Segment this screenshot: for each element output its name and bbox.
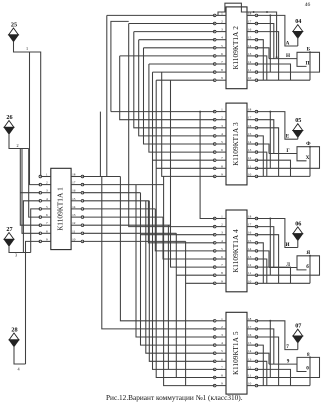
svg-text:13: 13 bbox=[248, 255, 252, 259]
svg-text:1: 1 bbox=[26, 46, 28, 51]
svg-text:3: 3 bbox=[221, 333, 223, 337]
svg-text:2: 2 bbox=[221, 20, 223, 24]
svg-text:Е: Е bbox=[286, 134, 290, 140]
svg-text:27: 27 bbox=[6, 226, 12, 233]
svg-text:16: 16 bbox=[72, 189, 76, 193]
svg-text:2: 2 bbox=[46, 181, 48, 185]
svg-text:12: 12 bbox=[248, 156, 252, 160]
svg-text:Я: Я bbox=[306, 250, 310, 256]
svg-text:11: 11 bbox=[248, 271, 252, 275]
svg-text:5: 5 bbox=[221, 349, 223, 353]
svg-text:1: 1 bbox=[221, 215, 223, 219]
svg-text:9: 9 bbox=[221, 382, 223, 386]
svg-text:6: 6 bbox=[221, 52, 223, 56]
svg-text:11: 11 bbox=[72, 229, 76, 233]
svg-text:5: 5 bbox=[221, 247, 223, 251]
svg-text:8: 8 bbox=[46, 229, 48, 233]
svg-text:Г: Г bbox=[286, 148, 290, 154]
svg-text:К1109КТ1А 5: К1109КТ1А 5 bbox=[231, 331, 240, 375]
svg-text:П: П bbox=[305, 60, 309, 66]
svg-text:18: 18 bbox=[72, 173, 76, 177]
svg-text:14: 14 bbox=[248, 140, 252, 144]
svg-text:06: 06 bbox=[295, 220, 301, 227]
svg-text:1: 1 bbox=[221, 108, 223, 112]
svg-text:28: 28 bbox=[11, 327, 17, 334]
svg-text:7: 7 bbox=[221, 263, 223, 267]
svg-text:14: 14 bbox=[248, 349, 252, 353]
svg-text:0: 0 bbox=[306, 366, 309, 372]
svg-text:17: 17 bbox=[248, 116, 252, 120]
svg-text:9: 9 bbox=[46, 237, 48, 241]
svg-text:8: 8 bbox=[221, 271, 223, 275]
svg-text:8: 8 bbox=[221, 374, 223, 378]
svg-text:13: 13 bbox=[248, 52, 252, 56]
svg-text:5: 5 bbox=[221, 44, 223, 48]
svg-text:9: 9 bbox=[287, 358, 290, 364]
svg-text:04: 04 bbox=[295, 18, 301, 25]
svg-text:Ф: Ф bbox=[306, 141, 311, 147]
svg-text:17: 17 bbox=[248, 223, 252, 227]
svg-text:8: 8 bbox=[221, 164, 223, 168]
svg-text:12: 12 bbox=[248, 263, 252, 267]
svg-text:16: 16 bbox=[248, 124, 252, 128]
svg-text:10: 10 bbox=[248, 172, 252, 176]
svg-text:3: 3 bbox=[46, 189, 48, 193]
svg-text:16: 16 bbox=[248, 333, 252, 337]
svg-text:11: 11 bbox=[248, 68, 252, 72]
svg-text:1: 1 bbox=[221, 317, 223, 321]
svg-text:16: 16 bbox=[248, 231, 252, 235]
svg-text:13: 13 bbox=[248, 148, 252, 152]
svg-text:05: 05 bbox=[295, 117, 301, 124]
svg-text:4: 4 bbox=[17, 367, 20, 372]
svg-text:15: 15 bbox=[72, 197, 76, 201]
svg-text:7: 7 bbox=[221, 365, 223, 369]
svg-text:3: 3 bbox=[221, 231, 223, 235]
svg-text:7: 7 bbox=[221, 60, 223, 64]
svg-text:9: 9 bbox=[221, 76, 223, 80]
svg-text:25: 25 bbox=[11, 22, 17, 29]
svg-text:15: 15 bbox=[248, 36, 252, 40]
svg-text:И: И bbox=[285, 242, 289, 248]
svg-text:К1109КТ1А 2: К1109КТ1А 2 bbox=[231, 26, 240, 70]
svg-text:6: 6 bbox=[46, 213, 48, 217]
svg-text:26: 26 bbox=[6, 114, 12, 121]
svg-text:Н: Н bbox=[286, 53, 290, 59]
svg-text:14: 14 bbox=[248, 247, 252, 251]
svg-text:4: 4 bbox=[221, 341, 223, 345]
svg-text:А: А bbox=[286, 40, 290, 46]
svg-text:9: 9 bbox=[221, 279, 223, 283]
svg-text:11: 11 bbox=[248, 374, 252, 378]
svg-text:2: 2 bbox=[221, 325, 223, 329]
svg-text:12: 12 bbox=[72, 221, 76, 225]
svg-text:3: 3 bbox=[221, 28, 223, 32]
svg-text:4: 4 bbox=[221, 239, 223, 243]
svg-text:11: 11 bbox=[248, 164, 252, 168]
svg-text:9: 9 bbox=[221, 172, 223, 176]
svg-text:18: 18 bbox=[248, 215, 252, 219]
svg-text:К1109КТ1А 4: К1109КТ1А 4 bbox=[231, 229, 240, 273]
svg-text:4: 4 bbox=[221, 132, 223, 136]
svg-text:4: 4 bbox=[46, 197, 48, 201]
svg-text:16: 16 bbox=[248, 28, 252, 32]
svg-text:10: 10 bbox=[248, 382, 252, 386]
svg-text:15: 15 bbox=[248, 239, 252, 243]
svg-text:3: 3 bbox=[221, 124, 223, 128]
svg-text:18: 18 bbox=[248, 317, 252, 321]
svg-text:6: 6 bbox=[221, 357, 223, 361]
svg-text:5: 5 bbox=[46, 205, 48, 209]
svg-text:10: 10 bbox=[72, 237, 76, 241]
svg-text:6: 6 bbox=[221, 148, 223, 152]
svg-text:14: 14 bbox=[248, 44, 252, 48]
svg-text:Рис.12.Вариант коммутации №1 (: Рис.12.Вариант коммутации №1 (класс310). bbox=[106, 393, 243, 402]
svg-text:6: 6 bbox=[221, 255, 223, 259]
svg-text:1: 1 bbox=[46, 173, 48, 177]
svg-text:К1109КТ1А 1: К1109КТ1А 1 bbox=[55, 187, 64, 231]
svg-text:10: 10 bbox=[248, 76, 252, 80]
svg-text:15: 15 bbox=[248, 341, 252, 345]
svg-text:17: 17 bbox=[248, 325, 252, 329]
svg-text:Х: Х bbox=[306, 155, 310, 161]
svg-text:17: 17 bbox=[72, 181, 76, 185]
svg-text:5: 5 bbox=[221, 140, 223, 144]
svg-text:К1109КТ1А 3: К1109КТ1А 3 bbox=[231, 122, 240, 166]
svg-text:14: 14 bbox=[72, 205, 76, 209]
svg-text:2: 2 bbox=[221, 116, 223, 120]
svg-text:2: 2 bbox=[221, 223, 223, 227]
svg-text:10: 10 bbox=[248, 279, 252, 283]
svg-text:12: 12 bbox=[248, 365, 252, 369]
svg-text:2: 2 bbox=[16, 143, 18, 148]
svg-text:Б: Б bbox=[307, 47, 311, 53]
svg-text:8: 8 bbox=[307, 352, 310, 358]
svg-text:б: б bbox=[306, 263, 309, 270]
svg-text:13: 13 bbox=[72, 213, 76, 217]
svg-text:13: 13 bbox=[248, 357, 252, 361]
svg-text:4: 4 bbox=[221, 36, 223, 40]
svg-text:07: 07 bbox=[295, 323, 301, 330]
svg-text:7: 7 bbox=[46, 221, 48, 225]
svg-text:3: 3 bbox=[15, 253, 17, 258]
svg-text:7: 7 bbox=[221, 156, 223, 160]
svg-text:15: 15 bbox=[248, 132, 252, 136]
svg-text:46: 46 bbox=[305, 2, 311, 8]
svg-text:18: 18 bbox=[248, 108, 252, 112]
svg-text:8: 8 bbox=[221, 68, 223, 72]
svg-text:7: 7 bbox=[286, 344, 289, 350]
svg-text:17: 17 bbox=[248, 20, 252, 24]
svg-text:12: 12 bbox=[248, 60, 252, 64]
